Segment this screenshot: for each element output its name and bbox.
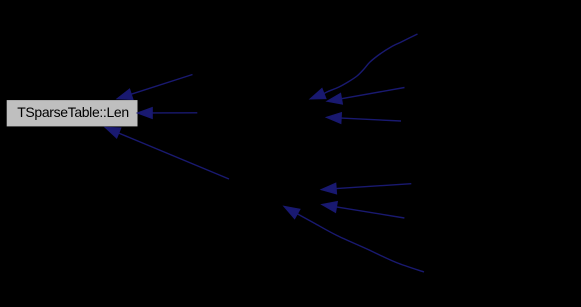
arrow A2: middle caller, horizontal into node right edge [137, 108, 197, 119]
arrow B1: curved edge from upper right into hidden node [310, 34, 418, 99]
arrow C1: straight edge into lower hidden node [321, 183, 411, 194]
arrow C3: long curved edge from bottom right into lower hidden node [284, 206, 424, 272]
arrow B3: straight edge into hidden node [326, 113, 401, 124]
arrow C2: straight edge into lower hidden node [322, 202, 405, 219]
svg-text:TSparseTable::Len: TSparseTable::Len [17, 104, 129, 120]
arrow A3: lower caller into node bottom edge [105, 127, 229, 179]
arrow A1: upper caller to node top-right [117, 75, 193, 100]
node TSparseTable::Len [6, 100, 138, 127]
arrow B2: straight edge into hidden node [327, 88, 405, 105]
